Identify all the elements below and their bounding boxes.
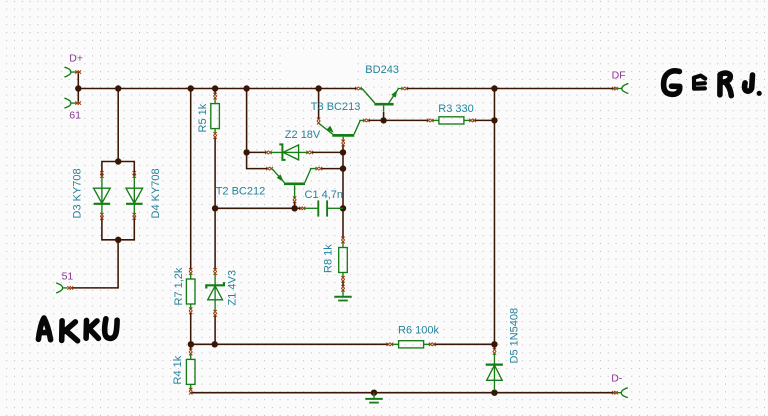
resistor R6 100k [387, 325, 440, 348]
wire R4 bottom to ground bus [190, 391, 192, 394]
svg-text:D3 KY708: D3 KY708 [72, 168, 84, 218]
wire bottom node row to R6 [191, 343, 388, 345]
junction node B2 T2 collector [340, 165, 346, 171]
handwritten label AKKU [38, 318, 117, 341]
junction node R7 tap [188, 85, 194, 91]
svg-text:Z1 4V3: Z1 4V3 [226, 270, 238, 305]
resistor R4 1k [172, 349, 195, 395]
transistor BD243 [355, 64, 408, 112]
junction node R3/column [491, 117, 497, 123]
junction node diode pair tap [115, 85, 121, 91]
junction node R5/C1 row [212, 205, 218, 211]
wire bus down to Z2/T2 [246, 89, 248, 153]
junction node T2 base [291, 205, 297, 211]
wire main bus D+ to BD243 collector [78, 88, 357, 90]
wire R7 to node [190, 313, 192, 345]
terminal 61 [64, 98, 81, 121]
junction node R5 tap [212, 85, 218, 91]
svg-text:D+: D+ [69, 53, 83, 65]
zener diode Z2 18V [265, 129, 321, 160]
junction node D C1 right/R8 [340, 205, 346, 211]
capacitor C1 4.7n [299, 189, 343, 217]
wire 61 to bus [77, 89, 79, 104]
wire R8 to ground [342, 281, 344, 287]
svg-text:R6 100k: R6 100k [398, 325, 439, 337]
wire bus down to T3 emitter [318, 89, 320, 119]
wire bus down to R7 [190, 89, 192, 271]
diode D5 1N5408 [486, 308, 521, 391]
wire D5 top [493, 344, 495, 350]
wire T3 base / node B / C1 / R8 vertical [342, 145, 344, 240]
svg-text:D5 1N5408: D5 1N5408 [509, 308, 521, 364]
wire R4 top [190, 344, 192, 350]
wire DF vertical down to R6/D5 [493, 89, 495, 345]
svg-text:T2 BC212: T2 BC212 [216, 186, 266, 198]
junction node R6/D5 [491, 341, 497, 347]
wire D3/D4 top rail [102, 162, 134, 176]
transistor T3 BC213 [311, 101, 370, 147]
terminal D- [611, 373, 628, 398]
svg-text:R7 1,2k: R7 1,2k [173, 267, 185, 305]
junction node R7/R4 [188, 341, 194, 347]
junction node Z1 bottom [212, 341, 218, 347]
wire BD243 base down [383, 112, 385, 120]
resistor R7 1.2k [173, 267, 195, 314]
handwritten label GERJ. [664, 71, 762, 96]
wire ground bus to D- [191, 392, 615, 394]
diode D3 KY708 [72, 168, 111, 219]
wire T3 collector to node [368, 119, 384, 121]
wire T2 collector to node B2 [321, 168, 343, 170]
svg-text:C1 4,7n: C1 4,7n [305, 189, 344, 201]
junction node A Z2 left [243, 149, 249, 155]
junction node D5 bottom [491, 390, 497, 396]
junction node T3 emitter tap [315, 85, 321, 91]
wire Z1 to node [214, 315, 216, 344]
wire R6 to node [433, 343, 495, 345]
svg-text:BD243: BD243 [365, 64, 399, 76]
junction node diode pair bottom [115, 237, 121, 243]
svg-text:R5 1k: R5 1k [197, 103, 209, 132]
svg-text:61: 61 [69, 110, 81, 122]
svg-text:D-: D- [611, 373, 623, 385]
junction node Z2 tap [243, 85, 249, 91]
ground on D- bus [365, 393, 382, 403]
wire BD243 emitter to DF [406, 88, 615, 90]
svg-text:D4 KY708: D4 KY708 [150, 168, 162, 218]
junction node B T3 base [340, 149, 346, 155]
wire node A down to T2 emitter [247, 152, 268, 168]
wire Z2 to node B [311, 151, 343, 153]
wire C1 row [215, 207, 301, 209]
wire R5 to Z1 [214, 137, 216, 270]
junction node DF column [491, 85, 497, 91]
resistor R5 1k [197, 93, 220, 139]
wire bus down to D3/D4 pair [117, 89, 119, 162]
wire bus to R5 [214, 89, 216, 95]
diode D4 KY708 [126, 168, 162, 219]
transistor T2 BC212 [216, 167, 323, 203]
svg-text:R4 1k: R4 1k [172, 355, 184, 384]
junction node D+/61 [75, 85, 81, 91]
erased white patch [281, 53, 353, 81]
terminal DF [612, 70, 629, 94]
svg-text:R3 330: R3 330 [438, 103, 473, 115]
resistor R8 1k [323, 237, 348, 283]
zener diode Z1 4V3 [206, 268, 238, 317]
resistor R3 330 [427, 103, 476, 124]
svg-text:DF: DF [612, 70, 626, 82]
terminal 51 [56, 271, 73, 293]
wire node to R3 [384, 119, 429, 121]
junction node ground tap [371, 390, 377, 396]
svg-text:R8 1k: R8 1k [323, 244, 335, 273]
svg-text:51: 51 [62, 271, 74, 283]
wire R3 to vertical [473, 119, 495, 121]
svg-text:T3 BC213: T3 BC213 [311, 101, 361, 113]
wire D+ to bus [77, 72, 79, 88]
wire T2 base down [294, 202, 296, 208]
junction node BD243 base/R3 [380, 117, 386, 123]
wire D3/D4 pair to terminal 51 [72, 240, 118, 288]
terminal D+ [64, 53, 83, 77]
svg-text:Z2 18V: Z2 18V [285, 129, 321, 141]
wire node A to Z2 [247, 151, 268, 153]
wire D3/D4 bottom rail [102, 216, 134, 239]
junction node diode pair top [115, 158, 121, 164]
ground under R8 [334, 285, 351, 301]
